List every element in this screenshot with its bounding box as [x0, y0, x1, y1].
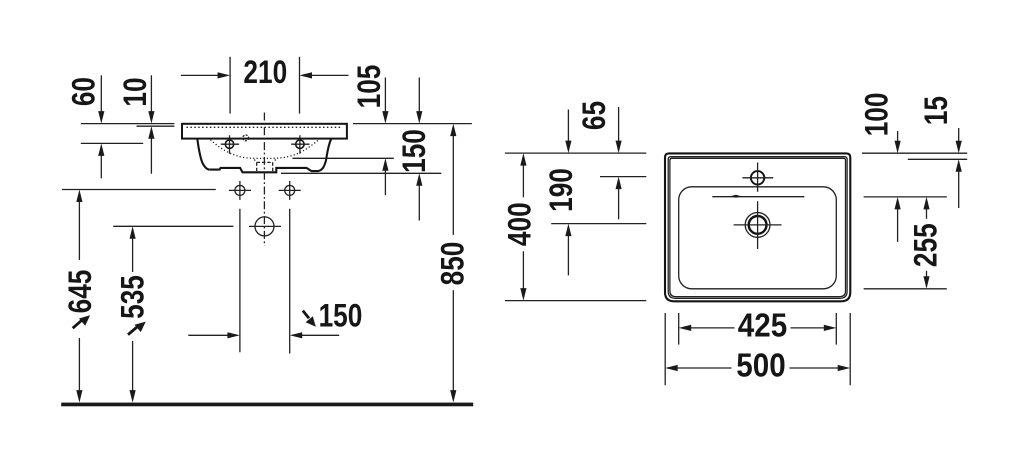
top edge reference line right [862, 152, 967, 154]
rim inner reference line right [908, 158, 967, 160]
dim 10 upper stem+arrow [150, 75, 152, 112]
60mm reference line [81, 142, 143, 144]
svg-text:190: 190 [545, 168, 580, 212]
dim 535 lower stem+arrow [132, 341, 134, 391]
dim 150 bottom left line+arrow [188, 334, 228, 336]
dim 65 lower arrow+stem [618, 188, 620, 219]
dim 645 upper arrow+stem [78, 201, 80, 260]
drain crosshair [734, 201, 782, 249]
vertical centerline dash-dot [263, 113, 265, 247]
top edge reference line left [505, 152, 646, 154]
svg-text:65: 65 [578, 101, 613, 130]
svg-text:150: 150 [319, 299, 363, 334]
mid outline [668, 157, 847, 299]
siphon crosshair [249, 225, 281, 227]
svg-text:105: 105 [353, 65, 388, 109]
drain inner circle [749, 216, 767, 234]
dim 150v upper stem+arrow [418, 78, 420, 113]
mounting hole left crosshair [229, 181, 251, 200]
overflow slot mark [731, 195, 742, 198]
svg-text:60: 60 [67, 77, 102, 106]
dim 15 upper stem+arrow [958, 128, 960, 142]
dim 425 line right+arrow [791, 327, 825, 329]
floor line [61, 403, 473, 407]
drain outer circle [745, 213, 770, 238]
drain recess dotted sides [254, 160, 275, 163]
bottom edge reference line left [505, 300, 646, 302]
dim 425 extension line right [835, 313, 837, 345]
drain offset extension line left [239, 209, 241, 352]
tap hole right circle [296, 140, 304, 148]
10mm reference line [137, 125, 175, 127]
dim 60 upper stem+arrow [100, 75, 102, 112]
wall reference line left of basin [81, 123, 175, 125]
drain hidden rect dashed [257, 162, 273, 171]
bowl hidden dotted curve [211, 140, 319, 159]
small overflow circle [243, 135, 249, 141]
siphon reference line [113, 225, 233, 227]
drain reference line left [551, 223, 646, 225]
dim 255 upper arrow+stem [926, 208, 928, 218]
dim 255 lower stem+arrow [926, 271, 928, 278]
dim 500 extension line right [849, 313, 851, 385]
dim 535 bent arrow [128, 327, 137, 335]
svg-text:255: 255 [909, 223, 944, 267]
dim 65 upper stem+arrow [618, 107, 620, 142]
dim 645 bent arrow [73, 321, 82, 329]
dim 425 line left+arrow [679, 325, 692, 331]
dim 850 upper arrow+stem [452, 135, 454, 235]
mounting hole right crosshair [279, 181, 301, 200]
svg-text:150: 150 [398, 129, 433, 173]
dim 150 bottom bent arrow [303, 311, 309, 319]
tap hole right crosshair [291, 135, 309, 154]
105 reference line [292, 157, 393, 159]
siphon circle [255, 217, 274, 236]
dim 500 line right+arrow [790, 367, 839, 369]
svg-text:100: 100 [860, 93, 895, 137]
mounting hole right [285, 185, 295, 195]
faucet hole circle [751, 171, 764, 184]
dim 10 lower stem+arrow [150, 138, 152, 174]
overflow reference line right [864, 196, 947, 198]
dim 105 lower stem+arrow [384, 170, 386, 195]
dim 210 right line+arrow [311, 74, 349, 76]
150 reference line [281, 172, 441, 174]
drain offset extension line right [289, 209, 291, 354]
dim 210 extension line left [229, 57, 231, 114]
inner outline [670, 158, 846, 296]
dim 400 upper arrow+stem [522, 165, 524, 198]
TOP VIEW GROUP [503, 93, 967, 386]
svg-text:535: 535 [116, 275, 151, 319]
dim 60 lower stem+arrow [100, 155, 102, 178]
dim 500 line left+arrow [665, 365, 678, 371]
svg-text:850: 850 [436, 242, 471, 286]
svg-text:15: 15 [920, 96, 955, 125]
tap hole left circle [225, 140, 233, 148]
dim 105 upper stem+arrow [384, 78, 386, 113]
dim 210 extension line right [299, 57, 301, 114]
faucet hole crosshair [742, 163, 773, 192]
body left wall [197, 139, 210, 170]
dim 190 upper stem+arrow [567, 110, 569, 142]
dim 850 lower stem+arrow [452, 290, 454, 391]
tap hole left crosshair [221, 135, 239, 154]
rim top dotted inner line [187, 126, 343, 128]
svg-text:500: 500 [736, 346, 785, 384]
dim 150 bottom right line+arrow [301, 334, 339, 336]
mounting hole left [235, 185, 245, 195]
dim 100 upper stem+arrow [897, 131, 899, 142]
dim 210 left line+arrow [181, 74, 219, 76]
dim 15 lower arrow+stem [958, 171, 960, 208]
svg-text:10: 10 [119, 77, 154, 106]
dim 400 lower stem+arrow [522, 251, 524, 289]
svg-text:425: 425 [738, 306, 787, 344]
svg-text:400: 400 [503, 202, 538, 246]
dim 425 extension line left [678, 313, 680, 345]
dim 500 extension line left [664, 313, 666, 385]
faucet reference line left [600, 176, 646, 178]
rim top reference line right of basin [353, 123, 472, 125]
dim 190 lower arrow+stem [567, 235, 569, 275]
FRONT VIEW GROUP [61, 55, 473, 406]
svg-text:645: 645 [64, 270, 99, 314]
dim 645 lower stem+arrow [78, 338, 80, 391]
inner bowl [679, 187, 837, 289]
outer outline [665, 153, 850, 301]
dim 100 lower arrow+stem [897, 208, 899, 242]
body bottom contour and right wall [210, 139, 331, 173]
bowl bottom reference line right [864, 288, 947, 290]
dim 535 upper arrow+stem [132, 238, 134, 272]
overflow slot line [712, 196, 804, 198]
svg-text:210: 210 [243, 55, 287, 90]
basin rim (front elevation) [182, 124, 347, 139]
dim 150v lower stem+arrow [418, 185, 420, 221]
mounting holes reference line [62, 189, 216, 191]
